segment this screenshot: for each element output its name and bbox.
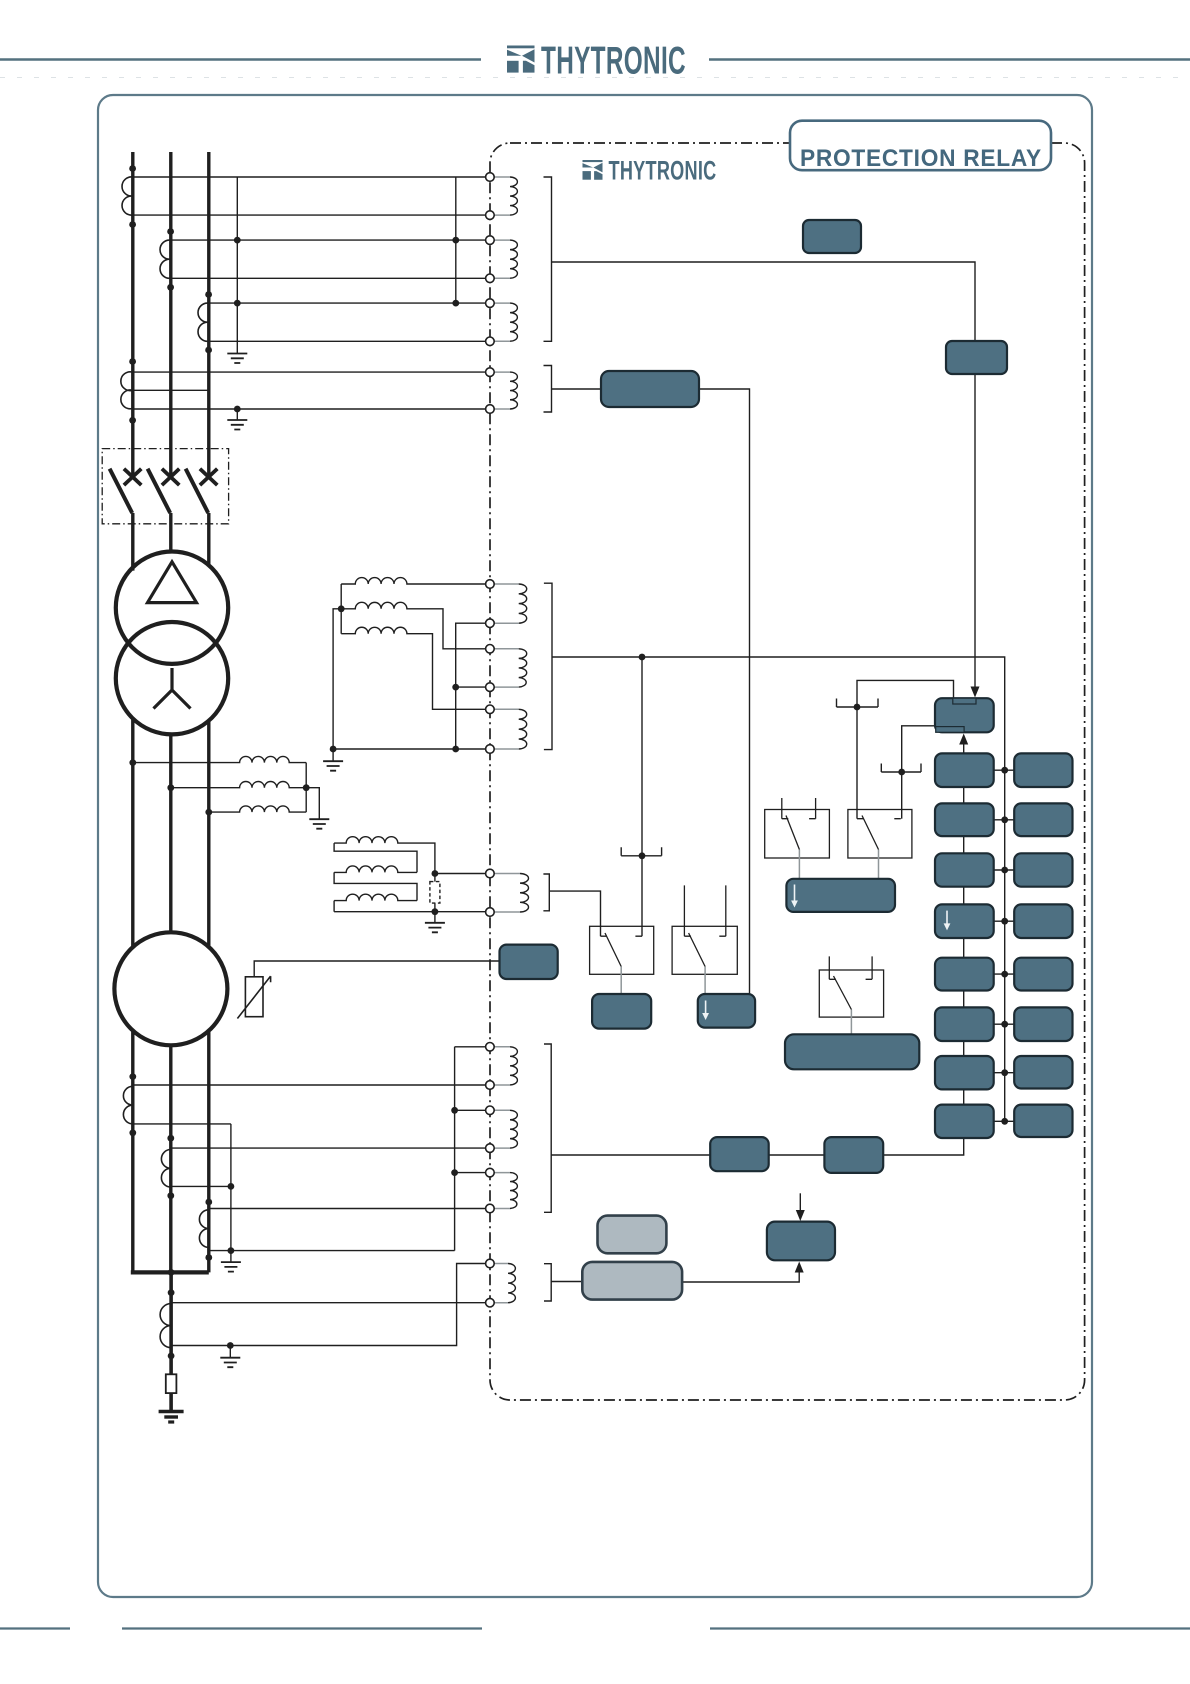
transformer T secondary circle bbox=[116, 622, 228, 734]
CT 3B coil bbox=[161, 1150, 170, 1188]
node aux common bbox=[303, 784, 310, 791]
wire bracket1 to ADU bbox=[552, 262, 976, 341]
bracket current inputs bbox=[544, 177, 552, 341]
PROTECTION RELAY label box bbox=[790, 121, 1051, 171]
breaker pole A bbox=[124, 469, 141, 485]
aux CT row A bbox=[133, 756, 306, 762]
CT3 earth rail bbox=[230, 1124, 232, 1251]
output block R6 bbox=[1014, 1007, 1072, 1041]
node bus row2 bbox=[1001, 816, 1008, 823]
phase bus A bbox=[131, 152, 134, 1272]
arrowhead down into 86 bbox=[796, 1210, 805, 1221]
CT3 secondary bus bbox=[455, 1047, 490, 1251]
wire neutral bracket to LG2 bbox=[551, 1281, 582, 1283]
bracket earth-fault input bbox=[544, 366, 552, 413]
VT earth rail bbox=[333, 609, 341, 749]
output block R3 bbox=[1014, 853, 1072, 886]
footer rules bbox=[0, 1627, 1190, 1629]
node earth rail C bbox=[234, 300, 241, 307]
svg-text:THYTRONIC: THYTRONIC bbox=[541, 39, 686, 82]
node CT3C tap bbox=[205, 1199, 212, 1206]
function block F2 bbox=[935, 803, 994, 836]
wire TB2 to T1 bottom bbox=[902, 726, 936, 772]
CT 3A coil (generator side) bbox=[123, 1086, 132, 1124]
function block F1 bbox=[935, 753, 994, 787]
wire TB1 to T1 top bbox=[857, 680, 954, 707]
block trip T1 bbox=[935, 698, 994, 732]
CT 3C wire bottom bbox=[209, 1250, 455, 1252]
94 white arrow bbox=[705, 1001, 707, 1016]
wire arrester to relay bbox=[254, 961, 499, 977]
VT bottom wire bbox=[333, 748, 490, 750]
relay coil current A bbox=[490, 176, 510, 178]
node VT row2 left bbox=[338, 605, 345, 612]
SW2 lead bbox=[878, 850, 880, 879]
node bus coil2 bbox=[451, 1107, 458, 1114]
node earth rail B bbox=[234, 237, 241, 244]
CT3 earth stub bbox=[230, 1251, 232, 1262]
test link TB1 bbox=[837, 699, 879, 708]
relay coil voltage A bbox=[490, 583, 519, 585]
open-delta link 2 bbox=[334, 872, 417, 900]
node sec bus C bbox=[452, 300, 459, 307]
node neutral CT bottom bbox=[168, 1353, 175, 1360]
node aux tap C bbox=[205, 809, 212, 816]
phase bus B bbox=[169, 152, 172, 1272]
CT 3B wire top bbox=[171, 1147, 490, 1149]
F4 white arrow bbox=[946, 911, 948, 926]
node neutral CT top bbox=[168, 1289, 175, 1296]
bus row stubs bbox=[994, 770, 1015, 1121]
node logic tap bbox=[639, 654, 646, 661]
changeover contact SW3 bbox=[819, 956, 883, 1017]
CT 3B wire bottom bbox=[171, 1185, 231, 1187]
block 74TC bbox=[592, 994, 651, 1029]
CT 1B coil bbox=[160, 240, 171, 278]
node bus row6 bbox=[1001, 1021, 1008, 1028]
SWL2 lead bbox=[704, 967, 706, 995]
node CT1A tap bbox=[129, 165, 136, 172]
ground (neutral, heavy) bbox=[159, 1410, 184, 1414]
relay coil neutral current bbox=[490, 1263, 508, 1265]
VT earth stub bbox=[332, 749, 334, 761]
wire block to contact column bbox=[699, 389, 750, 994]
node CT1C tap bbox=[205, 291, 212, 298]
node CT3C bottom bbox=[205, 1254, 212, 1261]
neutral CT coil bbox=[160, 1304, 171, 1348]
node VT common bottom bbox=[452, 746, 459, 753]
terminals on relay border bbox=[486, 173, 495, 1307]
svg-text:PROTECTION RELAY: PROTECTION RELAY bbox=[800, 145, 1042, 172]
node CT3A bottom bbox=[129, 1129, 136, 1136]
CT 2 wire middle bbox=[133, 389, 209, 391]
transformer T primary circle bbox=[116, 552, 228, 664]
node CT3B bottom bbox=[167, 1192, 174, 1199]
CT 1A coil bbox=[122, 177, 133, 215]
open-delta VT row 1 bbox=[334, 837, 435, 874]
relay coil current B bbox=[490, 239, 510, 241]
open-delta bottom wire bbox=[334, 911, 490, 913]
block ADU bbox=[946, 341, 1007, 374]
bracket generator CT inputs bbox=[544, 1044, 551, 1212]
node CT1B tap bbox=[167, 228, 174, 235]
node bus row5 bbox=[1001, 971, 1008, 978]
block comm module (light) bbox=[598, 1216, 667, 1254]
aux CT common link bbox=[305, 763, 307, 813]
function block F4 bbox=[935, 904, 994, 938]
function column links bbox=[963, 787, 965, 1105]
ground bbox=[221, 1262, 241, 1272]
node VT common mid bbox=[452, 684, 459, 691]
open-delta earth stub bbox=[434, 912, 436, 923]
circuit breaker enclosure bbox=[102, 449, 228, 524]
relay coil voltage C bbox=[490, 708, 519, 710]
THYTRONIC logo text (relay) bbox=[609, 155, 717, 185]
node CT2 bottom bbox=[129, 417, 136, 424]
function block F6 bbox=[935, 1007, 994, 1041]
phase bottom bar bbox=[131, 1270, 209, 1274]
block out K6 bbox=[824, 1137, 883, 1173]
aux CT row C bbox=[209, 806, 306, 812]
CT 1C wire top bbox=[209, 302, 490, 304]
function block F3 bbox=[935, 853, 994, 886]
ground bbox=[220, 1358, 240, 1368]
ground bbox=[227, 420, 247, 430]
changeover contact SW1 bbox=[765, 798, 830, 858]
wire open-delta bracket to switch bbox=[549, 891, 600, 936]
node aux tap B bbox=[167, 784, 174, 791]
bracket neutral CT input bbox=[544, 1264, 551, 1301]
svg-text:THYTRONIC: THYTRONIC bbox=[609, 155, 717, 185]
block supervision (light) bbox=[582, 1262, 682, 1300]
phase bus C bbox=[207, 152, 210, 1272]
wire TB2 to SW2 bbox=[901, 772, 903, 819]
function block F5 bbox=[935, 958, 994, 991]
relay coil earth-fault bbox=[490, 371, 510, 373]
neutral CT earth stub bbox=[229, 1346, 231, 1358]
arrow B1 to T1 bbox=[963, 737, 965, 753]
block out K5 bbox=[710, 1137, 769, 1171]
node CT1A bottom bbox=[129, 221, 136, 228]
node neutral bar bbox=[168, 1269, 175, 1276]
ground bbox=[323, 761, 343, 771]
CT 3C coil bbox=[199, 1210, 208, 1248]
generator circle bbox=[114, 932, 227, 1045]
CT 3A wire top bbox=[133, 1084, 490, 1086]
surge arrester bbox=[245, 977, 263, 1017]
THYTRONIC logo icon (relay) bbox=[583, 160, 603, 180]
node bus coil3 bbox=[451, 1169, 458, 1176]
node open-delta out top bbox=[432, 870, 439, 877]
neutral CT wire top bbox=[171, 1302, 490, 1304]
output block R8 bbox=[1014, 1105, 1072, 1137]
node bus row1 bbox=[1001, 767, 1008, 774]
node TB1 bbox=[854, 704, 861, 711]
changeover contact SWL1 bbox=[590, 926, 654, 974]
block 49 thermal bbox=[500, 945, 558, 979]
CT 3A wire bottom bbox=[133, 1123, 231, 1125]
transformer wye symbol bbox=[154, 668, 191, 709]
aux CT row B bbox=[171, 782, 306, 788]
node sec bus B bbox=[452, 237, 459, 244]
node rail B2 bbox=[228, 1183, 235, 1190]
CT star earth rail bbox=[236, 177, 238, 353]
damping resistor leads bbox=[434, 874, 436, 912]
node TB2 bbox=[898, 769, 905, 776]
open-delta VT row 2 bbox=[334, 866, 417, 872]
breaker pole C bbox=[200, 469, 217, 485]
CT 2 wire top bbox=[133, 371, 490, 373]
header rule left bbox=[0, 58, 481, 60]
protection relay dash-dot border bbox=[490, 143, 1085, 1400]
CT 1B wire top bbox=[171, 239, 490, 241]
VT secondary row 3 bbox=[341, 627, 490, 709]
node bus row4 bbox=[1001, 918, 1008, 925]
wire into 86 from top bbox=[799, 1193, 801, 1213]
header rule right bbox=[709, 58, 1190, 60]
CT secondary bus bbox=[455, 177, 457, 303]
node bus row3 bbox=[1001, 867, 1008, 874]
breaker pole B bbox=[162, 469, 179, 485]
test link TB2 bbox=[881, 764, 921, 773]
wire logic tap down bbox=[641, 657, 643, 936]
relay coil current C bbox=[490, 302, 510, 304]
node CT3B tap bbox=[167, 1135, 174, 1142]
wire VT bracket to bus bbox=[552, 657, 1005, 1121]
test link TB3 bbox=[621, 847, 661, 856]
ground bbox=[227, 354, 247, 364]
node bus row7 bbox=[1001, 1069, 1008, 1076]
wire bottom output chain bbox=[551, 1138, 964, 1155]
trip T1 bottom notch bbox=[936, 727, 964, 733]
CT 1C coil bbox=[198, 303, 209, 341]
output block R5 bbox=[1014, 958, 1072, 991]
CT 1C wire bottom bbox=[209, 340, 490, 342]
ground bbox=[309, 819, 329, 829]
CT 2 earth stub bbox=[236, 409, 238, 420]
aux CT earth jog bbox=[306, 788, 319, 819]
node rail earth bbox=[228, 1247, 235, 1254]
relay coil gen current A bbox=[490, 1046, 510, 1048]
node CT2 top bbox=[129, 358, 136, 365]
output block R4 bbox=[1014, 904, 1072, 938]
VT common return bbox=[456, 623, 490, 749]
VT secondary row 1 bbox=[341, 578, 490, 584]
block TCS bbox=[601, 371, 699, 407]
block trip matrix bbox=[786, 879, 895, 912]
THYTRONIC logo icon (header) bbox=[507, 46, 535, 73]
CT 2 core-balance coil bbox=[121, 372, 133, 409]
CT 1A wire top bbox=[133, 176, 490, 178]
wire TB1 to SW2 bbox=[856, 707, 858, 819]
open-delta link 3 bbox=[333, 901, 335, 912]
node VT earth bbox=[330, 746, 337, 753]
relay coil voltage B bbox=[490, 648, 519, 650]
block 94 bbox=[698, 994, 755, 1028]
block 86 lockout bbox=[767, 1222, 835, 1261]
function block F7 bbox=[935, 1056, 994, 1089]
trip T1 top notch bbox=[953, 698, 976, 704]
node CT3A tap bbox=[129, 1073, 136, 1080]
block binary input bbox=[803, 220, 861, 253]
SWL1 lead bbox=[620, 967, 622, 995]
node CT1C bottom bbox=[205, 347, 212, 354]
node neutral earth wire bbox=[227, 1342, 234, 1349]
relay coil gen current C bbox=[490, 1172, 510, 1174]
open-delta VT row 3 bbox=[334, 894, 417, 900]
node open-delta out bottom bbox=[432, 908, 439, 915]
changeover contact SWL2 bbox=[672, 885, 737, 974]
SW3 lead bbox=[850, 1010, 852, 1035]
output block R2 bbox=[1014, 803, 1072, 836]
wire LG2 to 86 block bbox=[682, 1270, 799, 1282]
faint scan artifact line bbox=[0, 77, 1190, 79]
transformer delta symbol bbox=[148, 562, 197, 603]
PROTECTION RELAY text bbox=[800, 145, 1042, 172]
ground bbox=[425, 923, 445, 933]
SW1 lead bbox=[798, 850, 800, 879]
CT 1B wire bottom bbox=[171, 277, 490, 279]
CT 2 wire bottom bbox=[133, 408, 490, 410]
node CT2 earth bbox=[234, 406, 241, 413]
outer figure border bbox=[98, 95, 1092, 1597]
relay coil residual voltage bbox=[490, 873, 520, 875]
bracket open-delta input bbox=[543, 874, 549, 911]
node aux tap A bbox=[129, 759, 136, 766]
wire ADU down arrow bbox=[974, 374, 976, 691]
bracket voltage inputs bbox=[544, 583, 552, 749]
open-delta link 1 bbox=[334, 843, 417, 872]
changeover contact SW2 bbox=[848, 810, 912, 859]
damping resistor (dashed) bbox=[430, 882, 440, 904]
neutral conductor bbox=[169, 1272, 173, 1410]
wire bracket2 to block bbox=[552, 388, 602, 390]
CT 3C wire top bbox=[209, 1208, 490, 1210]
open-delta output wire bbox=[435, 873, 490, 875]
VT secondary row 2 bbox=[341, 602, 490, 648]
neutral CT wire bottom bbox=[171, 1264, 490, 1346]
function block F8 bbox=[935, 1105, 994, 1138]
neutral grounding resistor bbox=[166, 1374, 177, 1393]
relay coil gen current B bbox=[490, 1109, 510, 1111]
node TB3 bbox=[639, 852, 646, 859]
VT row1-3 left link bbox=[340, 584, 342, 634]
node CT1B bottom bbox=[167, 284, 174, 291]
arrowhead into trip block bbox=[971, 687, 980, 698]
output block R1 bbox=[1014, 753, 1072, 787]
CT 1A wire bottom bbox=[133, 214, 490, 216]
output block R7 bbox=[1014, 1056, 1072, 1089]
block breaker failure wide bbox=[785, 1034, 919, 1069]
arrowhead up into 86 bbox=[795, 1262, 804, 1273]
node bus row8 bbox=[1001, 1118, 1008, 1125]
THYTRONIC logo text (header) bbox=[541, 39, 686, 82]
trip matrix white arrow bbox=[794, 885, 796, 903]
